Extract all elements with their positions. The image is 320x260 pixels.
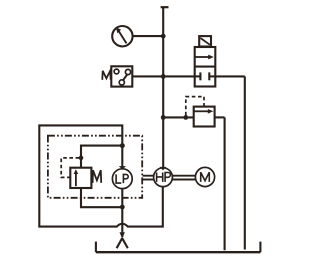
node: return joins LP suction	[120, 205, 125, 210]
solenoid valve V1 flow arrow	[195, 55, 213, 60]
pump LP flow triangle	[119, 166, 126, 170]
pressure gauge PG	[112, 26, 132, 46]
spring of pressure switch	[102, 71, 110, 80]
label LP	[116, 174, 128, 183]
enclosure boundary (dash-dot box)	[48, 136, 142, 198]
solenoid valve V1 body	[195, 47, 216, 87]
wire: outer circuit loop with hop crossing	[39, 125, 163, 226]
shaft coupling LP-HP	[143, 176, 154, 180]
spring of relief valve RV	[93, 170, 102, 183]
pump HP circle	[154, 168, 173, 187]
node: LP line top junction	[120, 143, 125, 148]
pilot line (dashed) of RV	[61, 158, 79, 178]
node: relief pilot tap	[79, 156, 84, 161]
pump HP flow triangle	[160, 167, 167, 171]
node: bus / valve line junction	[161, 74, 166, 79]
node: pilot tap junction	[183, 115, 188, 120]
pressure switch PS contacts	[114, 69, 131, 85]
node: gauge tee junction	[161, 34, 166, 39]
wire: gauge to bus	[133, 35, 164, 37]
wire: middle drop pipe to tank	[224, 117, 226, 250]
pump LP circle	[112, 169, 132, 189]
relief valve RV internal arrow	[74, 169, 79, 186]
wire: relief valve top to junction	[81, 146, 122, 168]
wire: valve V1 right port to right drop	[215, 75, 245, 77]
relief valve RV body	[70, 168, 91, 188]
wire: LP line lower segment	[121, 189, 123, 237]
solenoid valve V1 blocked ports	[196, 72, 216, 80]
pilot line (dashed) of V2	[186, 97, 204, 116]
suction arrowhead	[120, 232, 125, 238]
tank	[96, 242, 261, 253]
unloading valve V2 flow arrow	[194, 109, 213, 114]
wire: bus to valve V1 left port	[163, 75, 195, 77]
solenoid valve V1 position divider	[195, 66, 216, 68]
wire: LP line upper segment	[121, 146, 123, 167]
wire: top plug tick	[161, 6, 169, 8]
strainer	[117, 238, 128, 248]
shaft coupling HP-M	[172, 176, 195, 180]
wire: valve V2 right port to drop	[215, 116, 225, 118]
wire: relief valve bottom return	[81, 188, 122, 207]
node: bus unloader tee	[161, 115, 166, 120]
solenoid coil of V1	[199, 36, 211, 46]
pressure switch PS body	[111, 66, 132, 86]
motor M circle	[195, 167, 214, 186]
wire: pressure switch to bus	[132, 75, 163, 77]
wire: right drop pipe to tank	[244, 76, 246, 249]
label HP	[157, 173, 171, 182]
label M	[201, 172, 210, 182]
wire: main pressure bus vertical	[162, 7, 164, 168]
wire: bus to valve V2 left port	[163, 116, 194, 118]
unloading valve V2 body	[194, 107, 215, 127]
